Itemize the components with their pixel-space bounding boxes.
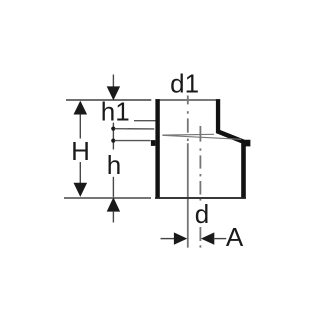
body left wall [155, 99, 159, 197]
dimension H arrow bottom [74, 183, 88, 197]
extension line from upper dot [115, 128, 155, 130]
body bottom edge [155, 197, 246, 199]
d centerline dash a [199, 126, 201, 142]
d centerline dash below body [199, 197, 201, 200]
svg-text:h1: h1 [101, 96, 130, 126]
svg-text:h: h [107, 150, 121, 180]
extension line from h1 label to body [134, 120, 157, 122]
svg-text:d1: d1 [170, 68, 199, 98]
h dimension vertical line lower [112, 177, 114, 197]
h1 outside arrow tail [112, 75, 114, 87]
d1 centerline dot [187, 111, 189, 114]
extension line from lower dot [115, 140, 151, 142]
d centerline dot a [199, 148, 201, 150]
d centerline dot c [199, 245, 201, 247]
dimension dot upper [111, 127, 115, 131]
dimension dot lower [111, 139, 115, 143]
body top edge [155, 99, 220, 101]
svg-text:H: H [71, 136, 90, 166]
dimension A arrow right (points left) [201, 232, 214, 244]
dimension A line right part [214, 238, 227, 240]
h outside arrow tail [112, 212, 114, 223]
h outside arrow bottom [107, 197, 120, 211]
h dimension vertical line upper [112, 123, 114, 150]
dimension H line upper segment [79, 112, 81, 139]
body right wall with step [216, 99, 251, 197]
svg-text:d: d [195, 199, 209, 229]
dimension A line left part [161, 238, 175, 240]
internal taper line lower [162, 135, 241, 139]
top extension line [66, 99, 151, 101]
dimension H line lower segment [79, 162, 81, 183]
h1 outside arrow [107, 86, 120, 100]
left socket bead [151, 140, 156, 146]
dimension H arrow top [74, 101, 88, 115]
internal taper line upper [162, 133, 214, 136]
d1 centerline dash c [187, 118, 189, 132]
d centerline dash b [199, 155, 201, 168]
d centerline dot b [199, 174, 201, 176]
d centerline dash under label [199, 227, 201, 241]
d1 centerline dot b [187, 139, 189, 141]
dimension A arrow left (points right) [174, 232, 187, 244]
d1 centerline dash b [187, 96, 189, 105]
A extension line left (d1 axis extended) [187, 143, 189, 247]
svg-text:A: A [226, 222, 244, 252]
bottom extension line [64, 197, 151, 199]
d centerline dash c [199, 181, 201, 195]
